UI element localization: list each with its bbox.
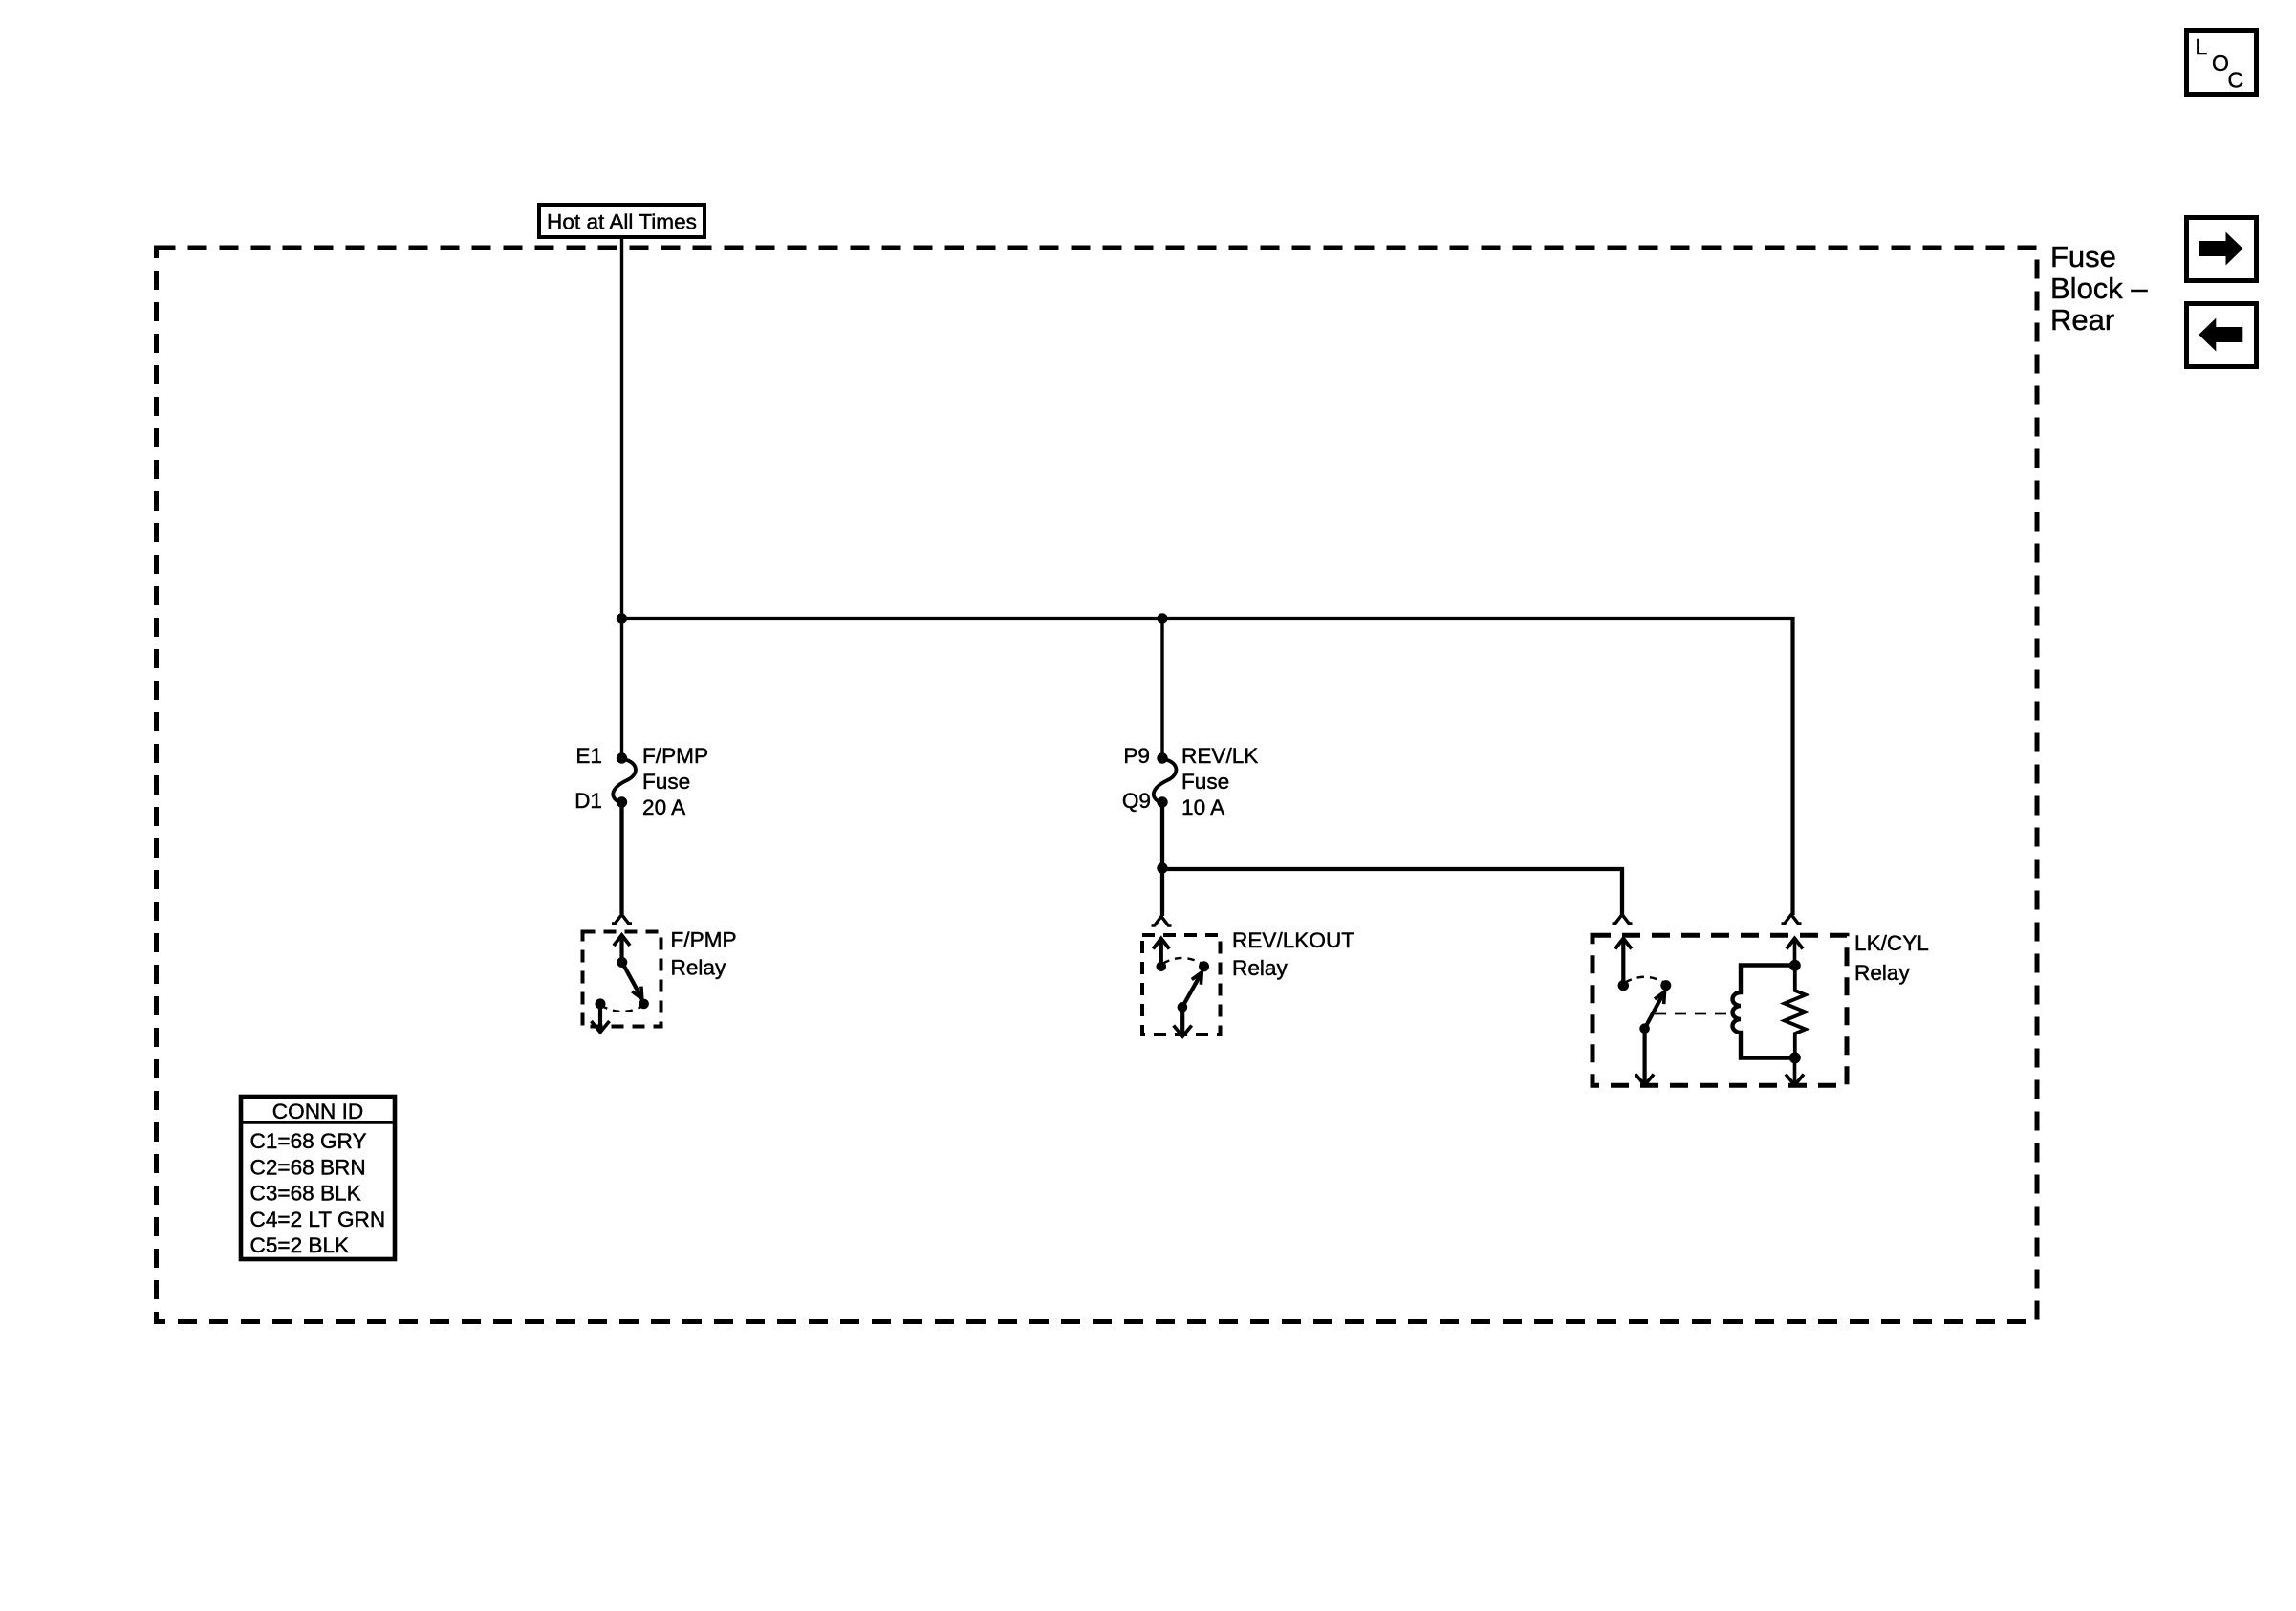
LK/CYL relay switch output arrow (down): [1642, 1029, 1646, 1085]
F/PMP relay output arrow (down): [598, 1004, 602, 1033]
wire: Q9 down to node C: [1160, 802, 1164, 868]
svg-text:LK/CYL: LK/CYL: [1854, 931, 1929, 955]
connector chevron at REV/LKOUT relay: [1152, 917, 1172, 926]
svg-text:C4=2 LT GRN: C4=2 LT GRN: [250, 1208, 386, 1231]
wire: D1 down to F/PMP relay: [619, 802, 623, 914]
svg-text:L: L: [2196, 34, 2208, 59]
LK/CYL relay switch pin arrow (up): [1615, 939, 1632, 949]
svg-text:F/PMP: F/PMP: [642, 744, 708, 768]
svg-text:Relay: Relay: [1232, 956, 1288, 980]
connector chevron at LK/CYL relay coil: [1782, 915, 1802, 925]
svg-text:Block –: Block –: [2050, 272, 2148, 305]
svg-text:Q9: Q9: [1122, 789, 1151, 813]
svg-text:C3=68 BLK: C3=68 BLK: [250, 1182, 361, 1206]
svg-text:D1: D1: [574, 789, 602, 813]
wire: feed from Hot box down to bus and to fuse E1: [620, 239, 623, 758]
LK/CYL relay switch arm: [1645, 994, 1663, 1029]
node A junction dot: [617, 613, 627, 623]
wire: bus drop to P9 fuse: [1160, 619, 1163, 758]
fuse F/PMP terminal E1 dot: [617, 752, 627, 763]
REV/LKOUT relay dashed box: [1142, 935, 1221, 1034]
fuse REV/LK terminal Q9 dot: [1157, 796, 1167, 807]
REV/LKOUT relay pin arrow (up): [1153, 939, 1169, 949]
LK/CYL relay travel arc (dashed): [1625, 977, 1664, 983]
svg-text:C: C: [2228, 68, 2244, 93]
connector chevron at F/PMP relay: [612, 915, 632, 925]
fuse REV/LK terminal P9 dot: [1157, 752, 1167, 763]
fuse REV/LK element: [1154, 759, 1177, 802]
svg-text:REV/LK: REV/LK: [1181, 744, 1258, 768]
svg-text:20 A: 20 A: [642, 795, 686, 819]
wire: bus from node A right and down to LK/CYL relay: [622, 619, 1793, 915]
F/PMP relay contact dot right: [639, 999, 649, 1010]
label box "Hot at All Times": [539, 205, 704, 237]
svg-text:P9: P9: [1123, 744, 1150, 768]
fuse block dashed border: [157, 248, 2038, 1322]
svg-text:Fuse: Fuse: [642, 770, 690, 794]
REV/LKOUT relay pivot dot: [1157, 962, 1167, 972]
REV/LKOUT relay output arrow (down): [1180, 1007, 1184, 1036]
connector chevron at LK/CYL relay switch: [1613, 915, 1633, 925]
LK/CYL relay lower contact dot: [1639, 1023, 1650, 1034]
svg-text:C5=2 BLK: C5=2 BLK: [250, 1233, 350, 1257]
LK/CYL relay coil branch: [1733, 966, 1795, 1058]
fuse F/PMP terminal D1 dot: [617, 796, 627, 807]
REV/LKOUT relay travel arc (dashed): [1163, 958, 1202, 964]
LK/CYL relay contact dot right: [1660, 980, 1671, 991]
F/PMP relay contact dot left: [596, 998, 606, 1009]
LK/CYL relay dashed box: [1592, 935, 1847, 1085]
F/PMP relay travel arc (dashed): [601, 1006, 644, 1012]
svg-text:Relay: Relay: [671, 956, 726, 980]
svg-text:Fuse: Fuse: [1181, 770, 1229, 794]
fuse F/PMP element: [613, 759, 636, 802]
LK/CYL relay pivot dot: [1618, 980, 1629, 991]
LK/CYL relay coil pin arrow (up): [1787, 939, 1803, 949]
back navigation arrow box: [2187, 304, 2257, 367]
LK/CYL relay coil output arrow (down): [1793, 1057, 1797, 1085]
wire: node C down to REV/LKOUT relay: [1160, 868, 1164, 916]
F/PMP relay pivot dot: [617, 957, 627, 968]
svg-text:REV/LKOUT: REV/LKOUT: [1232, 928, 1354, 952]
svg-text:10 A: 10 A: [1181, 795, 1225, 819]
LK/CYL relay resistor branch: [1785, 966, 1806, 1058]
F/PMP relay dashed box: [583, 932, 661, 1027]
LK/CYL relay coil bottom node dot: [1789, 1052, 1801, 1063]
REV/LKOUT relay contact dot right: [1199, 961, 1209, 971]
node B junction dot: [1157, 613, 1167, 623]
F/PMP relay pin arrow (up): [614, 935, 630, 946]
svg-text:Rear: Rear: [2050, 303, 2114, 337]
svg-text:Relay: Relay: [1854, 961, 1910, 985]
LK/CYL relay mechanical link (dashed): [1655, 1013, 1728, 1015]
node C junction dot: [1157, 862, 1167, 873]
svg-text:C1=68 GRY: C1=68 GRY: [250, 1129, 367, 1153]
LOC reference box: [2187, 31, 2257, 95]
LK/CYL relay coil top node dot: [1789, 960, 1801, 971]
svg-text:F/PMP: F/PMP: [671, 928, 737, 952]
svg-text:Fuse: Fuse: [2050, 240, 2116, 273]
svg-text:O: O: [2212, 51, 2229, 76]
CONN ID table: [241, 1097, 395, 1259]
svg-text:Hot at All Times: Hot at All Times: [547, 210, 697, 234]
wire: node C branch right to LK/CYL relay switch: [1162, 869, 1622, 915]
REV/LKOUT relay switch arm: [1182, 974, 1201, 1007]
svg-text:E1: E1: [575, 744, 602, 768]
forward navigation arrow box: [2187, 218, 2257, 281]
svg-text:C2=68 BRN: C2=68 BRN: [250, 1155, 366, 1179]
svg-text:CONN ID: CONN ID: [272, 1099, 363, 1123]
F/PMP relay switch arm: [622, 963, 641, 997]
REV/LKOUT relay lower contact dot: [1178, 1002, 1188, 1012]
